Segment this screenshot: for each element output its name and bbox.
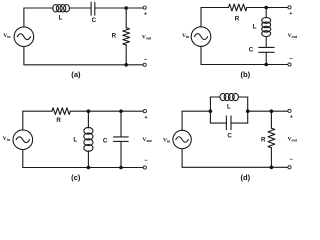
terminal (b) +: [288, 6, 291, 9]
wire (c) source top to rail: [22, 111, 24, 130]
wire (c) bottom rail: [23, 167, 144, 169]
wire (a) bottom rail: [24, 64, 143, 66]
wire (b) L to C: [265, 37, 267, 48]
wire (d) R to bottom rail: [270, 148, 272, 168]
wire (d) right stub: [247, 97, 249, 123]
svg-text:L: L: [59, 14, 63, 21]
wire (c) source bottom: [22, 150, 24, 168]
svg-text:(b): (b): [241, 70, 251, 79]
svg-text:−: −: [290, 157, 293, 163]
svg-text:R: R: [261, 137, 266, 144]
svg-text:+: +: [289, 11, 292, 17]
node (c) top C: [119, 109, 123, 113]
capacitor C (b): [259, 47, 274, 52]
svg-text:+: +: [144, 11, 147, 17]
wire (a) R to bottom rail: [125, 45, 127, 65]
terminal (b) -: [288, 63, 291, 66]
terminal (a) +: [143, 6, 146, 9]
svg-text:C: C: [227, 133, 232, 140]
node (a) top: [124, 6, 128, 10]
wire (d) rail to LC node: [182, 110, 210, 112]
wire (a) top rail to L: [24, 7, 53, 9]
node (d) right: [246, 109, 250, 113]
wire (d) source bottom: [181, 149, 183, 168]
wire (c) node to C: [120, 111, 122, 137]
terminal (c) -: [143, 166, 146, 169]
svg-text:(a): (a): [71, 70, 81, 79]
wire (b) source top to rail: [200, 8, 202, 27]
wire (d) top branch right: [238, 96, 247, 98]
inductor L (b): [262, 18, 271, 37]
wire (b) source bottom: [200, 46, 202, 64]
wire (d) bottom branch right: [231, 122, 248, 124]
wire (a) source bottom: [23, 47, 25, 65]
node (c) bottom L: [87, 166, 91, 170]
svg-text:R: R: [56, 117, 61, 124]
node (c) bottom C: [119, 166, 123, 170]
svg-text:+: +: [144, 115, 147, 121]
source V1 (b): [191, 27, 211, 47]
node (b) top: [264, 6, 268, 10]
wire (d) source top to rail: [181, 111, 183, 130]
terminal (c) +: [143, 110, 146, 113]
terminal (d) -: [288, 166, 291, 169]
terminal (a) -: [143, 63, 146, 66]
wire (b) bottom rail: [201, 64, 288, 66]
node (c) top L: [87, 109, 91, 113]
svg-text:R: R: [235, 16, 240, 23]
wire (a) C to + terminal: [95, 7, 143, 9]
source V1 (a): [14, 27, 34, 47]
node (d) bottom: [270, 166, 274, 170]
wire (c) R to + terminal: [70, 110, 143, 112]
svg-text:+: +: [290, 115, 293, 121]
wire (d) bottom rail: [182, 166, 288, 168]
terminal (d) +: [288, 109, 291, 112]
wire (d) left stub: [209, 97, 211, 123]
svg-text:−: −: [144, 58, 147, 64]
svg-text:R: R: [112, 33, 117, 40]
wire (c) C to bottom rail: [120, 141, 122, 167]
svg-text:L: L: [253, 24, 257, 31]
resistor R (b): [229, 4, 247, 11]
wire (d) top branch left: [210, 96, 220, 98]
svg-text:L: L: [73, 136, 77, 143]
svg-text:−: −: [289, 57, 292, 63]
capacitor C (a): [91, 2, 95, 15]
svg-text:(d): (d): [241, 173, 251, 182]
source V1 (c): [13, 130, 33, 150]
resistor R (c): [52, 108, 70, 115]
wire (b) C to bottom rail: [265, 52, 267, 64]
svg-text:−: −: [144, 158, 147, 164]
inductor L (c): [84, 127, 93, 151]
svg-text:C: C: [249, 47, 254, 54]
capacitor C (d): [226, 116, 231, 130]
resistor R (a): [123, 28, 130, 45]
wire (c) L to bottom rail: [87, 151, 89, 168]
wire (d) node to R: [270, 111, 272, 128]
inductor L (a): [53, 5, 70, 12]
node (d) R top: [270, 109, 274, 113]
resistor R (d): [268, 128, 275, 148]
wire (c) rail to R: [23, 110, 52, 112]
wire (a) L to C: [69, 7, 91, 9]
inductor L (d): [220, 93, 238, 100]
wire (d) node to + terminal: [248, 110, 288, 112]
svg-text:L: L: [227, 103, 231, 110]
wire (d) bottom branch left: [210, 122, 226, 124]
wire (a) source top to rail: [23, 8, 25, 27]
node (d) left: [209, 109, 213, 113]
svg-text:C: C: [103, 138, 108, 145]
svg-text:C: C: [92, 17, 97, 24]
wire (b) R to + terminal: [247, 7, 288, 9]
node (a) bottom: [124, 63, 128, 67]
node (b) bottom: [264, 63, 268, 67]
wire (a) node to R: [125, 8, 127, 28]
svg-text:(c): (c): [71, 173, 81, 182]
wire (c) node to L: [87, 111, 89, 128]
wire (b) rail to R: [201, 7, 229, 9]
wire (b) node to L: [265, 8, 267, 18]
source V1 (d): [173, 130, 191, 148]
capacitor C (c): [114, 137, 129, 142]
